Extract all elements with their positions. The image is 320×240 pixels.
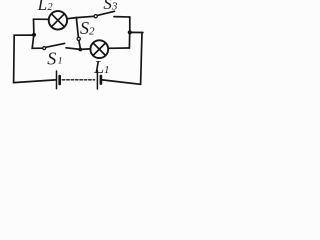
switch S2 branch: tap stub: [76, 18, 78, 21]
node junction middle: [78, 48, 82, 52]
label S1: [47, 48, 62, 68]
svg-text:3: 3: [111, 1, 118, 13]
wire from node down to L1 rail: [108, 32, 129, 48]
label S2: [80, 18, 95, 38]
svg-text:2: 2: [48, 2, 53, 13]
lamp L2: [49, 11, 67, 29]
switch S1 blade: [46, 43, 65, 47]
svg-text:1: 1: [104, 64, 110, 76]
wire dashed omitted-cells segment: [62, 79, 94, 81]
wire from left node to outer left vertical: [14, 35, 34, 83]
wire bottom rail right: [102, 80, 140, 84]
wire from left node up to top rail corner: [33, 19, 35, 35]
wire top rail from L2 to S2 tap: [68, 18, 77, 19]
battery cell 1 long plate: [56, 71, 58, 89]
wire middle rail left of S1 to corner up to node: [32, 35, 43, 49]
node junction left: [32, 33, 36, 37]
label L2: [37, 0, 53, 14]
battery cell 2 short plate: [100, 76, 103, 84]
wire inner right vertical drop: [129, 17, 131, 32]
node junction right: [128, 30, 132, 34]
svg-text:2: 2: [89, 26, 95, 38]
switch S2 blade: [77, 21, 79, 37]
svg-text:S: S: [47, 48, 56, 68]
battery cell 2 long plate: [96, 71, 98, 90]
wire top rail from S2 tap to S3: [77, 16, 94, 17]
wire top rail after S3 to right corner: [114, 16, 130, 18]
switch S2 contact circle: [77, 37, 80, 40]
svg-text:1: 1: [58, 57, 63, 67]
wire outer right vertical: [141, 33, 142, 85]
battery cell 1 short plate: [58, 76, 61, 84]
lamp L1: [90, 40, 108, 58]
svg-text:L: L: [93, 57, 104, 77]
label L1: [93, 57, 109, 77]
label S3: [103, 0, 118, 13]
wire top rail left segment: [34, 18, 49, 20]
wire from L1 left to junction: [80, 48, 90, 51]
wire bottom rail left: [14, 80, 56, 83]
svg-text:L: L: [37, 0, 47, 14]
switch S2 lower stub to junction: [79, 41, 80, 48]
wire from right node to outer right vertical: [130, 31, 143, 33]
wire middle rail from S1 to junction: [66, 48, 80, 50]
switch S3: [94, 11, 114, 18]
switch S1 contact circle: [43, 47, 46, 50]
svg-text:S: S: [80, 18, 89, 38]
